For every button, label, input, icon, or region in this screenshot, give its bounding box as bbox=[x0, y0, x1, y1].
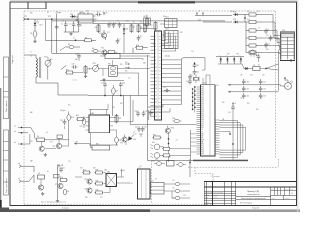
IC DA6 cross box bbox=[106, 171, 117, 187]
wire left mid down bbox=[58, 83, 88, 95]
transformer T1 coil bbox=[30, 55, 41, 80]
wire BQ1 bbox=[140, 27, 155, 29]
connector X2 tall bbox=[151, 29, 162, 120]
svg-text:C44: C44 bbox=[155, 159, 158, 161]
svg-text:R27: R27 bbox=[80, 168, 83, 170]
resistor R14 ladder bbox=[246, 36, 262, 39]
transistor VT7 bbox=[55, 183, 63, 188]
wire K8 out bbox=[117, 69, 150, 96]
svg-text:C39: C39 bbox=[247, 89, 250, 91]
svg-text:15: 15 bbox=[155, 85, 157, 87]
svg-text:P16: P16 bbox=[201, 115, 204, 117]
svg-text:R2: R2 bbox=[47, 12, 49, 14]
svg-text:C43: C43 bbox=[183, 195, 186, 197]
connector pin a2 bbox=[14, 126, 31, 129]
wires br bbox=[164, 184, 190, 198]
wire bl bus bbox=[57, 165, 59, 200]
resistor R34 bbox=[162, 154, 174, 157]
wire center h bbox=[100, 80, 124, 82]
svg-text:VT7: VT7 bbox=[55, 184, 58, 186]
ground bl bbox=[56, 199, 59, 202]
ground VT6 bbox=[41, 192, 44, 195]
diode VD2 top bbox=[70, 14, 76, 18]
svg-text:VD6: VD6 bbox=[133, 139, 136, 141]
connector pin a3 bbox=[14, 131, 28, 134]
svg-text:C26: C26 bbox=[135, 111, 138, 113]
resistor R7 bbox=[130, 24, 135, 34]
resistor R10 bbox=[135, 45, 148, 49]
diode VD6 slanted bbox=[128, 131, 137, 141]
svg-text:7: 7 bbox=[155, 57, 156, 59]
transistor VT5 bbox=[120, 137, 127, 145]
diode VD3 vertical bbox=[123, 24, 128, 53]
svg-text:VD3: VD3 bbox=[125, 29, 128, 31]
svg-text:R23: R23 bbox=[76, 115, 79, 117]
svg-text:P01: P01 bbox=[201, 89, 204, 91]
wire +5V bbox=[75, 144, 91, 148]
svg-text:C16: C16 bbox=[75, 54, 78, 56]
wires X2 to MCU top bbox=[148, 105, 170, 113]
wires DD3 misc bbox=[220, 131, 231, 134]
vplus M1 bbox=[284, 78, 286, 81]
resistor R36 bbox=[84, 65, 91, 78]
svg-text:C7: C7 bbox=[119, 39, 121, 41]
svg-text:DA3: DA3 bbox=[91, 112, 94, 115]
svg-text:13: 13 bbox=[155, 78, 157, 80]
transistor VT6 bbox=[38, 179, 43, 190]
svg-text:Изм Лист № докум. Подп. Дата: Изм Лист № докум. Подп. Дата bbox=[205, 192, 223, 194]
svg-text:P12: P12 bbox=[201, 107, 204, 109]
svg-text:T1: T1 bbox=[30, 52, 32, 54]
svg-text:ХТ1: ХТ1 bbox=[24, 16, 27, 18]
svg-text:P15: P15 bbox=[201, 113, 204, 115]
dashed enclosure left bbox=[23, 11, 25, 204]
svg-text:SB1: SB1 bbox=[30, 13, 33, 15]
svg-text:P07: P07 bbox=[201, 101, 204, 103]
relay K1 box bbox=[250, 65, 267, 71]
diode VD4 bbox=[233, 12, 245, 16]
op-amp DA1 bbox=[76, 11, 96, 23]
svg-text:R41: R41 bbox=[247, 103, 250, 105]
wire bottom of top-left bbox=[52, 38, 150, 54]
svg-text:+5: +5 bbox=[96, 19, 98, 21]
switch SA1 bbox=[60, 47, 66, 51]
svg-text:R24: R24 bbox=[118, 118, 121, 120]
svg-text:DA1: DA1 bbox=[80, 11, 83, 14]
svg-text:C31: C31 bbox=[250, 75, 253, 77]
resistor R31 oval bbox=[173, 118, 182, 123]
resistor R1 vertical bbox=[30, 25, 37, 39]
svg-text:Листов 1: Листов 1 bbox=[285, 198, 290, 200]
capacitor C17 bbox=[101, 82, 107, 88]
svg-text:1. отказ: 1. отказ bbox=[72, 80, 77, 82]
ellipse cap top2 bbox=[176, 163, 186, 167]
svg-text:VT2: VT2 bbox=[101, 48, 104, 50]
bracket wires DD3 right bbox=[220, 121, 246, 158]
svg-text:R34: R34 bbox=[168, 157, 171, 159]
capacitor C7 bbox=[116, 22, 122, 44]
svg-text:+5В деж: +5В деж bbox=[165, 56, 171, 58]
dashed enclosure bottom-right bbox=[195, 173, 213, 175]
svg-text:T2: T2 bbox=[139, 167, 141, 169]
svg-text:R27: R27 bbox=[83, 170, 86, 172]
resistor R33 bbox=[162, 147, 174, 150]
svg-text:C34: C34 bbox=[260, 98, 263, 100]
comb bus X2 to MCU bbox=[162, 58, 206, 105]
wire DA3 bottom bbox=[89, 133, 118, 145]
svg-text:16: 16 bbox=[155, 88, 157, 90]
svg-text:C42: C42 bbox=[263, 89, 266, 91]
svg-text:R10: R10 bbox=[136, 45, 139, 47]
svg-text:VT5: VT5 bbox=[120, 143, 123, 145]
wire caps C24 bbox=[139, 134, 143, 137]
cap grid left bbox=[242, 79, 249, 99]
capacitor C21 bbox=[59, 167, 65, 173]
svg-text:IN0: IN0 bbox=[201, 125, 204, 127]
svg-text:24: 24 bbox=[155, 116, 157, 118]
svg-text:VD5: VD5 bbox=[230, 11, 233, 13]
resistor R12 ladder bbox=[245, 20, 262, 23]
svg-text:R29: R29 bbox=[96, 181, 99, 183]
svg-text:P25: P25 bbox=[201, 154, 204, 156]
crystal ZQ1 bbox=[190, 75, 199, 84]
svg-text:VD8: VD8 bbox=[236, 54, 239, 56]
net arrows to X2 bbox=[125, 62, 130, 73]
vplus DA1 bbox=[103, 12, 108, 15]
svg-text:BQ1: BQ1 bbox=[144, 16, 147, 18]
svg-text:C4: C4 bbox=[97, 12, 99, 14]
wires VT4 bbox=[45, 138, 68, 148]
title block grid bbox=[204, 182, 296, 206]
svg-text:C11: C11 bbox=[267, 43, 270, 45]
svg-text:VT1: VT1 bbox=[99, 33, 102, 35]
capacitor C4 bbox=[96, 12, 102, 17]
capacitor C14 bbox=[193, 63, 200, 69]
svg-text:K3: K3 bbox=[46, 132, 48, 134]
wire caps common bbox=[64, 31, 79, 33]
wire diode row bottom bbox=[218, 63, 242, 65]
svg-text:10: 10 bbox=[155, 67, 157, 69]
svg-text:VD: VD bbox=[219, 55, 221, 57]
wire vertical from XT2 bbox=[51, 19, 53, 53]
svg-text:R12: R12 bbox=[247, 11, 250, 13]
vplus DA6 a bbox=[121, 170, 126, 173]
resistor R8 bbox=[137, 24, 142, 34]
resonator BQ1 bbox=[144, 15, 151, 27]
svg-text:VU1: VU1 bbox=[152, 142, 155, 144]
capacitor C10 bbox=[269, 35, 275, 41]
ellipse cap C23 bbox=[115, 135, 122, 145]
svg-text:P24: P24 bbox=[201, 152, 204, 154]
transistor VT4 bbox=[53, 143, 62, 148]
svg-text:DD2: DD2 bbox=[166, 29, 169, 31]
ground VT3 bbox=[44, 153, 47, 156]
polarized cap C37 bbox=[256, 54, 260, 62]
optocoupler VU2 bbox=[151, 153, 164, 163]
microcontroller DD3 bbox=[200, 83, 215, 156]
svg-text:Разраб.: Разраб. bbox=[205, 194, 210, 196]
resistor R25 wide bbox=[90, 143, 109, 150]
capacitor C24 bbox=[135, 126, 141, 132]
IC DD1 bbox=[165, 17, 178, 28]
svg-text:C28: C28 bbox=[60, 120, 63, 122]
svg-text:VT11: VT11 bbox=[93, 63, 97, 65]
svg-text:C15: C15 bbox=[197, 72, 200, 74]
svg-text:VD4: VD4 bbox=[198, 20, 201, 22]
svg-text:VD4: VD4 bbox=[233, 12, 236, 14]
wires to MCU bottom bbox=[174, 130, 197, 161]
resistor R11 ladder bbox=[245, 13, 262, 16]
svg-text:R8: R8 bbox=[140, 21, 142, 23]
capacitor C3 bbox=[77, 21, 82, 32]
ellipse caps column bbox=[172, 182, 183, 199]
svg-text:Привод СДГ: Привод СДГ bbox=[247, 191, 260, 193]
svg-text:Схема электрическая принципиал: Схема электрическая принципиальная bbox=[241, 198, 266, 200]
box K4 bbox=[57, 135, 63, 138]
svg-text:Перв. примен.: Перв. примен. bbox=[6, 100, 8, 112]
wire mid drop 4 bbox=[123, 95, 125, 116]
svg-text:C3: C3 bbox=[80, 25, 82, 27]
transistor VT1 bbox=[99, 30, 107, 40]
svg-text:2: 2 bbox=[155, 39, 156, 41]
svg-text:XT2: XT2 bbox=[201, 123, 204, 125]
svg-text:Копировал: Копировал bbox=[62, 208, 69, 210]
svg-text:C25: C25 bbox=[144, 127, 147, 129]
svg-text:Лист: Лист bbox=[272, 198, 275, 200]
svg-text:R28: R28 bbox=[93, 168, 96, 170]
svg-text:VT1: VT1 bbox=[107, 32, 110, 34]
svg-text:P00: P00 bbox=[201, 87, 204, 89]
svg-text:C12: C12 bbox=[164, 87, 167, 89]
svg-text:T1: T1 bbox=[30, 56, 32, 58]
svg-text:C9: C9 bbox=[258, 28, 260, 30]
svg-text:P04: P04 bbox=[201, 95, 204, 97]
capacitor C6 bbox=[112, 22, 117, 28]
svg-text:R36: R36 bbox=[88, 69, 91, 71]
connector XS4 in bbox=[18, 163, 29, 167]
ellipse cap top1 bbox=[154, 162, 165, 166]
wire T1 top bbox=[24, 54, 36, 56]
svg-text:C40: C40 bbox=[228, 112, 231, 114]
wire br vertical bbox=[189, 159, 190, 177]
relay K2 box bbox=[100, 52, 150, 60]
wire mid drop 3 bbox=[112, 95, 114, 116]
svg-text:МГТУ им. Баумана: МГТУ им. Баумана bbox=[240, 203, 252, 205]
svg-text:C2: C2 bbox=[69, 24, 71, 26]
svg-text:P03: P03 bbox=[201, 93, 204, 95]
wire to diodes bbox=[195, 16, 232, 23]
svg-text:а4: а4 bbox=[14, 142, 16, 144]
wire mid drop 1 bbox=[147, 55, 149, 161]
wire caps row2 bbox=[228, 91, 274, 93]
wire diode join bbox=[244, 15, 245, 23]
wire x150 caps bbox=[149, 110, 153, 120]
svg-text:+В: +В bbox=[131, 183, 133, 185]
svg-text:C27: C27 bbox=[145, 111, 148, 113]
svg-text:P17: P17 bbox=[201, 117, 204, 119]
wire DA3 top bbox=[89, 104, 108, 115]
svg-text:C40: C40 bbox=[247, 96, 250, 98]
wires DD3 top bbox=[203, 75, 210, 85]
capacitor C12 inline bbox=[164, 87, 171, 92]
top-left revision table bbox=[10, 2, 46, 9]
svg-text:C17: C17 bbox=[128, 78, 131, 80]
wires DD2 left bbox=[160, 24, 165, 45]
svg-text:2Вх: 2Вх bbox=[125, 70, 128, 72]
wire long mid bus bbox=[148, 160, 193, 162]
svg-text:20: 20 bbox=[155, 102, 157, 104]
svg-text:R4: R4 bbox=[95, 27, 97, 29]
capacitor C9 bbox=[264, 28, 269, 34]
svg-text:VT8: VT8 bbox=[85, 179, 88, 181]
connector XS5 in bbox=[18, 178, 29, 182]
diode VD9 bbox=[244, 67, 250, 70]
wire DA6 out bbox=[117, 173, 128, 184]
wire top bus C bbox=[93, 23, 150, 25]
svg-text:C1: C1 bbox=[61, 24, 63, 26]
ellipse cap C22 bbox=[63, 189, 69, 195]
svg-text:P10: P10 bbox=[201, 103, 204, 105]
resistor R4 bbox=[95, 24, 100, 34]
ground center bbox=[102, 78, 105, 81]
svg-text:K3: K3 bbox=[37, 136, 39, 138]
label +5V bbox=[74, 142, 78, 145]
box top small bbox=[167, 161, 175, 167]
svg-text:ШД: ШД bbox=[222, 119, 224, 121]
svg-text:Иванов: Иванов bbox=[214, 194, 218, 196]
wire rail to caps bbox=[274, 91, 279, 93]
LED VD1 bbox=[34, 19, 43, 26]
svg-text:R18: R18 bbox=[266, 49, 269, 51]
capacitor C11 bbox=[264, 42, 270, 48]
left margin stamp upper bbox=[3, 57, 8, 119]
svg-text:1Вх: 1Вх bbox=[125, 62, 128, 64]
resistor R9 bbox=[144, 24, 149, 34]
svg-text:12: 12 bbox=[155, 74, 157, 76]
svg-text:C19: C19 bbox=[115, 91, 118, 93]
svg-text:R9: R9 bbox=[147, 21, 149, 23]
svg-text:M1: M1 bbox=[284, 78, 286, 80]
wire center down bbox=[88, 88, 148, 96]
svg-text:C21: C21 bbox=[68, 161, 71, 163]
svg-text:R28: R28 bbox=[96, 170, 99, 172]
transformer T2 box bbox=[138, 167, 151, 199]
svg-text:+5В деж: +5В деж bbox=[60, 110, 66, 112]
dashed enclosure right bbox=[275, 11, 277, 159]
node XT2 bbox=[48, 16, 53, 20]
svg-text:C14: C14 bbox=[191, 51, 194, 53]
svg-text:VT10: VT10 bbox=[171, 128, 175, 130]
resistor R22 oval bbox=[67, 112, 74, 140]
svg-text:R22: R22 bbox=[71, 117, 74, 119]
svg-text:C32: C32 bbox=[262, 75, 265, 77]
svg-text:R15: R15 bbox=[50, 59, 53, 61]
svg-text:C28: C28 bbox=[112, 107, 115, 109]
footer text bbox=[62, 207, 259, 210]
dashed enclosure drop bbox=[212, 174, 214, 182]
resistor R23 bbox=[76, 115, 85, 120]
wire VT10 down bbox=[168, 134, 169, 163]
resistor R24 bbox=[115, 114, 121, 124]
svg-text:R5: R5 bbox=[85, 38, 87, 40]
svg-text:схематичный: схематичный bbox=[247, 193, 259, 196]
capacitor C1 bbox=[61, 21, 68, 32]
svg-text:C18: C18 bbox=[122, 83, 125, 85]
svg-text:C41: C41 bbox=[172, 180, 175, 182]
svg-text:а3: а3 bbox=[14, 131, 16, 133]
resistor R16 ladder bbox=[246, 51, 262, 54]
svg-text:C42: C42 bbox=[172, 188, 175, 190]
capacitor C28 bbox=[60, 119, 66, 129]
optocoupler VU1 bbox=[151, 142, 164, 150]
capacitor C25 bbox=[141, 126, 147, 132]
resistor R13 ladder bbox=[246, 29, 262, 32]
svg-text:IN1: IN1 bbox=[201, 127, 204, 129]
capacitor C26 bbox=[135, 111, 140, 117]
DD3 right pins bbox=[215, 120, 220, 154]
resistor R21 bbox=[65, 70, 83, 74]
wire mid-left horizontal bbox=[45, 20, 96, 41]
wire right drop 1 bbox=[290, 59, 292, 62]
wire top bus B bbox=[52, 20, 225, 22]
svg-text:РЭС: РЭС bbox=[108, 64, 111, 66]
wire R10 down bbox=[132, 48, 134, 53]
resistor R20 above X2 bbox=[151, 21, 157, 31]
box K6 bbox=[54, 175, 60, 178]
svg-text:27" на прив: 27" на прив bbox=[211, 176, 220, 178]
svg-text:Петров: Петров bbox=[214, 197, 218, 199]
svg-text:C8: C8 bbox=[140, 36, 142, 38]
diode VD5 bbox=[233, 19, 245, 23]
transistor VT10 bbox=[165, 126, 174, 134]
switch SA3 bbox=[29, 166, 34, 183]
svg-text:а1: а1 bbox=[12, 61, 14, 63]
transistor VT3 bbox=[39, 142, 44, 152]
svg-text:P06: P06 bbox=[201, 99, 204, 101]
resistor R30 bbox=[95, 190, 104, 194]
svg-text:9: 9 bbox=[155, 64, 156, 66]
capacitor C36 bbox=[72, 64, 78, 69]
resistor R28 bbox=[95, 170, 104, 174]
left margin stamp lower bbox=[3, 130, 8, 195]
vplus DA6 b bbox=[127, 183, 132, 185]
motor M1 circle bbox=[279, 80, 293, 89]
svg-text:R35: R35 bbox=[120, 103, 123, 105]
svg-text:K5: K5 bbox=[47, 171, 49, 173]
svg-text:R13: R13 bbox=[257, 11, 260, 13]
svg-text:K5: K5 bbox=[38, 173, 40, 175]
vplus DD3 right bbox=[231, 103, 236, 162]
svg-text:R9: R9 bbox=[146, 27, 148, 29]
cap grid right bbox=[259, 79, 266, 99]
svg-text:K1: K1 bbox=[258, 65, 260, 67]
svg-text:1: 1 bbox=[155, 36, 156, 38]
svg-text:R3: R3 bbox=[68, 44, 70, 46]
svg-text:VD5: VD5 bbox=[233, 19, 236, 21]
svg-text:C5: C5 bbox=[110, 23, 112, 25]
resistor R32 bbox=[152, 135, 161, 139]
connector XP1 bbox=[280, 30, 295, 60]
wire ladder stem bbox=[245, 22, 247, 53]
capacitor C15 bbox=[193, 62, 200, 75]
wire x133 drop bbox=[130, 100, 133, 122]
svg-text:VD3: VD3 bbox=[126, 21, 129, 23]
resistor R29 bbox=[95, 181, 104, 185]
svg-text:11: 11 bbox=[155, 71, 157, 73]
transistor VT8 bbox=[85, 179, 93, 184]
svg-text:R16: R16 bbox=[120, 64, 123, 66]
resistor R5 bbox=[84, 38, 93, 42]
